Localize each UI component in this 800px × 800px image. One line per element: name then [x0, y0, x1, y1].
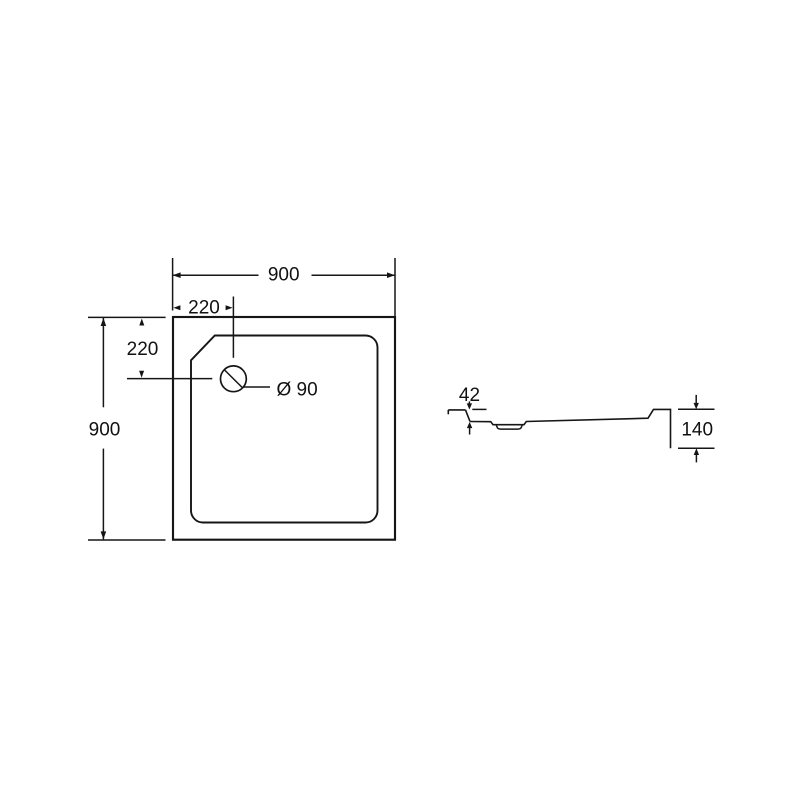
profile: main floor and right wall [470, 409, 671, 448]
arrowhead 900 top left [173, 272, 181, 278]
left 900 dimension line upper segment [102, 318, 104, 407]
extension line top-left (900 top dim) [172, 258, 174, 311]
svg-text:900: 900 [89, 419, 121, 440]
dimension line 900 top, right segment [312, 274, 396, 276]
arrowhead 220 top right [226, 305, 233, 310]
svg-text:220: 220 [188, 298, 220, 319]
extension line top-right (900 top dim) [394, 258, 396, 316]
leader line to Ø 90 label [243, 386, 270, 388]
profile: flange top [448, 409, 465, 411]
profile: left flange tick [447, 410, 449, 414]
dimension line 900 top, left segment [173, 274, 259, 276]
drain circle [221, 366, 247, 392]
svg-text:42: 42 [459, 385, 480, 406]
arrowhead 220 top left [173, 305, 180, 310]
svg-text:900: 900 [268, 265, 300, 286]
42 dim: up arrow shaft [469, 428, 471, 435]
140 dim: bottom arrow shaft [695, 455, 697, 462]
drain center horizontal line [127, 378, 212, 380]
top extension line (left dims) [88, 316, 166, 318]
profile: waste recess dish [496, 425, 522, 429]
140 dim: top extension line [678, 408, 715, 410]
140 dim: bottom extension line [678, 447, 715, 449]
arrowhead 220 left bottom [139, 371, 144, 378]
vertical line from 220 dim down to drain [232, 297, 234, 358]
arrowhead 42 up [467, 422, 472, 428]
outer square (tray plan view) [173, 317, 395, 540]
140 dim: top arrow shaft [695, 395, 697, 403]
inner tray outline with chamfered top-left corner [191, 336, 378, 523]
arrowhead 220 left top [139, 319, 144, 326]
arrowhead 42 down [467, 403, 472, 409]
svg-text:Ø 90: Ø 90 [277, 379, 318, 400]
arrowhead 140 down [694, 403, 699, 409]
profile: flange slope down [466, 410, 471, 422]
left 900 dimension line lower segment [102, 449, 104, 540]
bottom extension line (left dims) [88, 539, 166, 541]
arrowhead 900 left top [101, 318, 107, 326]
arrowhead 900 left bottom [101, 531, 107, 539]
42 dim: reference line [472, 408, 486, 410]
drain diagonal line [224, 370, 242, 388]
svg-text:220: 220 [127, 339, 159, 360]
42 dim: down arrow shaft [468, 401, 470, 403]
svg-text:140: 140 [681, 420, 713, 441]
arrowhead 140 up [694, 448, 699, 455]
arrowhead 900 top right [387, 272, 395, 278]
